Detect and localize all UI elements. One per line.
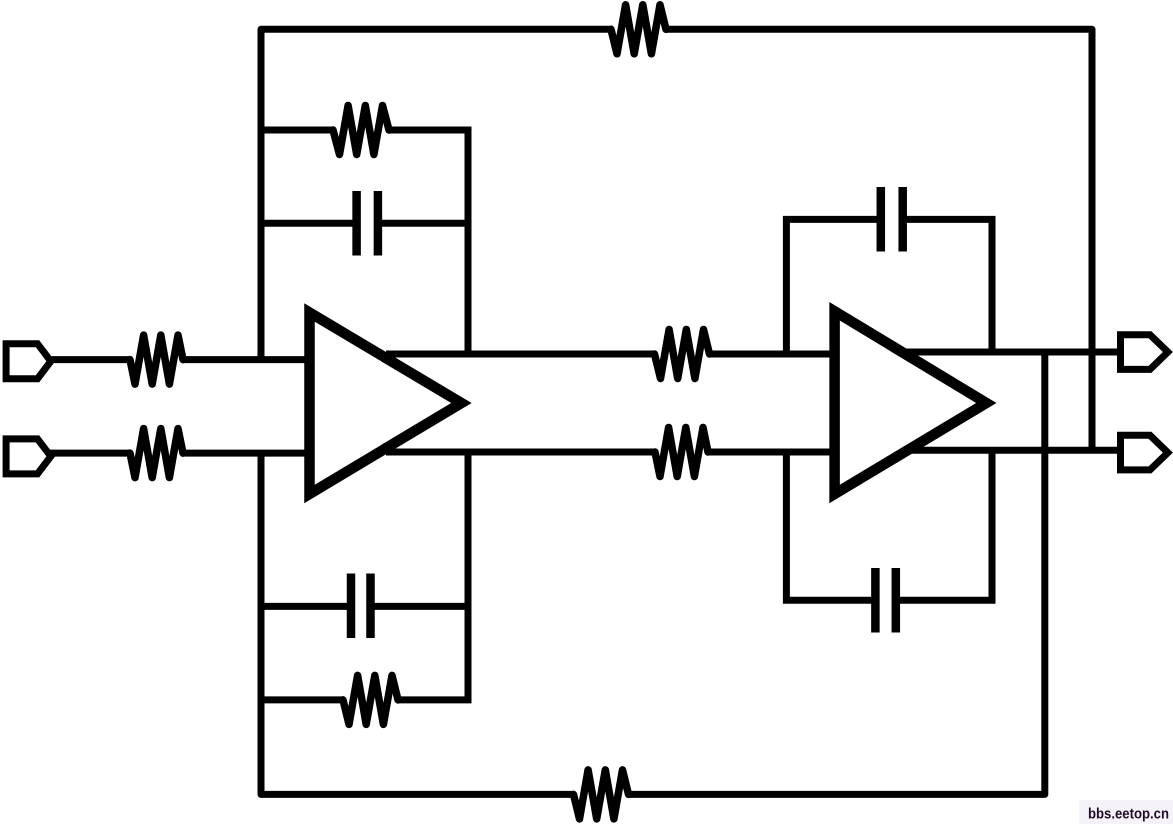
op-amp U2 xyxy=(835,311,987,494)
wire: output 1, U2 to terminal OUT+ xyxy=(905,349,1121,356)
capacitor C4 xyxy=(875,568,895,633)
resistor R6 (middle 2) xyxy=(655,428,708,477)
wire: left vertical upper + top wire left part xyxy=(261,29,611,359)
capacitor C2 xyxy=(351,574,371,639)
wire: output 2, U2 to terminal OUT- xyxy=(909,447,1121,454)
wire: bottom wire right part + right riser up to upper output line xyxy=(629,352,1045,794)
capacitor C3 xyxy=(881,187,903,252)
wire: top wire right part + right riser down to lower output line xyxy=(666,29,1092,450)
op-amp U1 xyxy=(310,313,462,495)
wire: feedback box A bottom resistor branch right lead + right vertical up to mid wire 2 xyxy=(397,452,468,700)
wire: middle 1, resistor R5 to op-amp U2 xyxy=(709,351,838,358)
output terminal OUT+ xyxy=(1121,335,1168,370)
wire: feedback box B bottom branch (cap right lead + right vertical up to output line 2) xyxy=(899,450,992,600)
input terminal IN- xyxy=(6,439,51,474)
wire: feedback box A bottom resistor branch, left lead xyxy=(261,696,344,703)
resistor R8 (bottom wire) xyxy=(574,770,629,819)
wire: input 1, terminal to resistor R1 xyxy=(50,356,131,363)
wire: input 1, resistor R1 to op-amp U1 xyxy=(183,356,312,363)
wire: input 2, terminal to resistor R2 xyxy=(50,450,131,457)
watermark background xyxy=(1079,800,1173,824)
resistor R5 (middle 1) xyxy=(655,330,710,379)
resistor R4 (feedback A bottom) xyxy=(343,675,398,724)
output terminal OUT- xyxy=(1121,435,1168,470)
wire: left vertical lower + bottom wire left part xyxy=(261,453,574,794)
wire: middle 2, U1 output to resistor R6 xyxy=(386,449,656,456)
wire: input 2, resistor R2 to op-amp U1 xyxy=(183,450,312,457)
wire: middle 1, U1 output to resistor R5 xyxy=(386,351,655,358)
resistor R7 (top wire) xyxy=(611,5,666,54)
wire: middle 2, resistor R6 to op-amp U2 xyxy=(708,449,839,456)
svg-text:bbs.eetop.cn: bbs.eetop.cn xyxy=(1088,806,1169,823)
wire: capacitor C2 left lead xyxy=(261,603,348,610)
wire: capacitor C2 right lead xyxy=(374,603,469,610)
wire: feedback box A top resistor branch, left lead xyxy=(261,127,334,134)
input terminal IN+ xyxy=(6,344,51,379)
wire: capacitor C1 right lead xyxy=(381,220,468,227)
resistor R2 (input 2) xyxy=(130,429,183,478)
capacitor C1 xyxy=(357,191,378,256)
wire: feedback box B top branch (left vertical + cap left lead) xyxy=(786,219,877,354)
wire: capacitor C1 left lead xyxy=(261,220,354,227)
resistor R3 (feedback A top) xyxy=(333,106,389,155)
wire: feedback box B top branch (cap right lead + right vertical down to output line 1) xyxy=(906,219,993,352)
wire: feedback box A top resistor branch right lead + right vertical down to mid wire 1 xyxy=(388,130,468,354)
wire: feedback box B bottom branch (left vertical + cap left lead) xyxy=(786,452,872,600)
resistor R1 (input 1) xyxy=(130,335,183,384)
